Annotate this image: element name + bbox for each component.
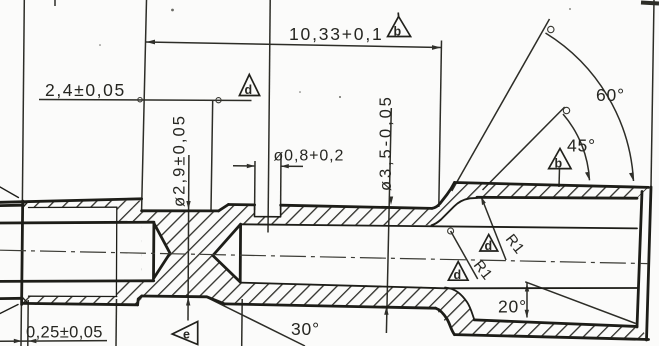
svg-text:d: d bbox=[245, 83, 253, 97]
svg-text:R1: R1 bbox=[470, 257, 496, 284]
svg-text:30°: 30° bbox=[291, 319, 320, 339]
svg-text:ø0,8+0,2: ø0,8+0,2 bbox=[274, 148, 345, 165]
svg-text:b: b bbox=[394, 25, 402, 39]
svg-text:ø2,9±0,05: ø2,9±0,05 bbox=[171, 114, 189, 207]
svg-text:d: d bbox=[485, 239, 493, 253]
svg-text:b: b bbox=[555, 157, 563, 171]
svg-text:10,33+0,1: 10,33+0,1 bbox=[289, 24, 384, 44]
svg-text:20°: 20° bbox=[498, 297, 527, 317]
svg-text:R1: R1 bbox=[502, 231, 528, 258]
svg-text:ø3,5-0,05: ø3,5-0,05 bbox=[377, 94, 395, 191]
svg-text:0,25±0,05: 0,25±0,05 bbox=[26, 324, 103, 342]
svg-text:45°: 45° bbox=[567, 136, 596, 156]
svg-text:e: e bbox=[183, 328, 190, 342]
svg-text:60°: 60° bbox=[596, 85, 625, 105]
svg-text:d: d bbox=[454, 268, 462, 282]
svg-text:2,4±0,05: 2,4±0,05 bbox=[45, 80, 126, 100]
